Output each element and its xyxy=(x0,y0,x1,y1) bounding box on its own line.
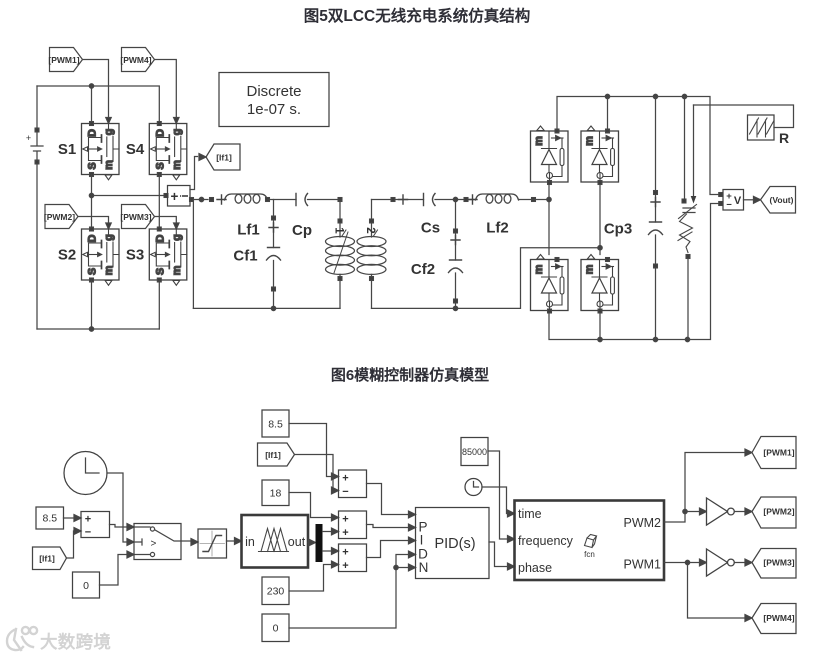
svg-text:+: + xyxy=(342,560,348,572)
capacitor Cs xyxy=(424,194,436,206)
wire PWM2 out xyxy=(664,453,745,523)
wire PWM3 to S3 gate xyxy=(155,217,177,223)
From tag If1 a xyxy=(33,547,67,570)
node PWM2 junction xyxy=(683,509,687,513)
svg-text:out: out xyxy=(288,535,306,549)
terminal Lf1 left xyxy=(210,198,214,202)
wire PWM2 to not1 xyxy=(685,511,700,513)
svg-text:[If1]: [If1] xyxy=(216,153,232,163)
sum block A xyxy=(339,470,367,498)
node top rail junction xyxy=(89,84,93,88)
svg-text:S2: S2 xyxy=(58,247,76,264)
wire DC minus rail xyxy=(549,204,719,340)
small clock block xyxy=(465,479,482,496)
wire sumA to PID in1 xyxy=(367,484,409,515)
voltage sensor V xyxy=(719,190,744,211)
From tag PWM3 xyxy=(120,205,154,229)
svg-text:+: + xyxy=(342,547,348,559)
logic not gate 1 xyxy=(707,498,735,525)
svg-text:Discrete: Discrete xyxy=(246,83,301,100)
arrow into PWM4 tag xyxy=(745,615,752,622)
svg-text:Cf1: Cf1 xyxy=(233,248,257,265)
node DC plus junction 1 xyxy=(605,94,609,98)
node DC minus junction 3 xyxy=(685,337,689,341)
wire 0a to switch xyxy=(100,555,128,586)
svg-text:8.5: 8.5 xyxy=(268,419,283,431)
svg-text:frequency: frequency xyxy=(518,534,574,548)
constant 0 a xyxy=(73,572,100,598)
current sensor I1 xyxy=(164,186,193,207)
svg-text:Cs: Cs xyxy=(421,220,440,237)
wire S2 source to bottom rail xyxy=(91,280,93,329)
MATLAB function block xyxy=(515,501,665,581)
svg-text:Lf2: Lf2 xyxy=(486,220,509,237)
wire 8.5a to sum1 xyxy=(64,517,75,519)
DC source battery xyxy=(26,86,43,329)
mosfet S4 xyxy=(149,118,187,180)
svg-text:图5双LCC无线充电系统仿真结构: 图5双LCC无线充电系统仿真结构 xyxy=(304,6,530,25)
Goto tag If1 xyxy=(199,144,240,170)
node bottom rail junction xyxy=(89,327,93,331)
node 0b junction xyxy=(394,565,398,569)
plus Lf1 xyxy=(217,195,226,204)
wire If1b to sum2bottom xyxy=(295,455,334,491)
svg-text:大数跨境: 大数跨境 xyxy=(40,632,111,652)
wire bridge left leg xyxy=(548,185,550,255)
switch block xyxy=(134,524,181,560)
svg-text:fcn: fcn xyxy=(584,550,595,559)
clock block xyxy=(64,452,107,495)
svg-text:S4: S4 xyxy=(126,141,145,158)
svg-text:图6模糊控制器仿真模型: 图6模糊控制器仿真模型 xyxy=(331,366,489,384)
wire top rail xyxy=(37,86,159,123)
svg-text:[If1]: [If1] xyxy=(39,554,55,564)
mosfet S2 xyxy=(82,223,120,285)
svg-text:in: in xyxy=(245,535,255,549)
wire small clock to fcn time xyxy=(482,487,508,514)
shunt branch Cf2 xyxy=(449,200,463,309)
wire secondary bottom rail xyxy=(372,248,601,309)
svg-text:(Vout): (Vout) xyxy=(770,195,794,205)
svg-text:V: V xyxy=(734,195,742,207)
svg-text:18: 18 xyxy=(270,488,282,500)
svg-text:0: 0 xyxy=(273,623,279,635)
From tag PWM4 xyxy=(120,48,154,72)
plus Cs xyxy=(399,195,408,204)
wire Cp to winding1 xyxy=(308,199,341,201)
constant 0 b xyxy=(262,614,289,642)
inductor Lf1 xyxy=(225,194,268,203)
svg-text:[If1]: [If1] xyxy=(265,450,281,460)
svg-text:time: time xyxy=(518,507,542,521)
svg-text:I: I xyxy=(420,533,424,548)
wire Cs to Lf2 xyxy=(435,199,474,201)
sum block 1 xyxy=(81,512,110,539)
node Cf2 bottom junction xyxy=(453,306,457,310)
wire 230 to sum4bottom xyxy=(289,565,332,592)
svg-text:+: + xyxy=(342,473,348,485)
svg-text:8.5: 8.5 xyxy=(42,513,57,525)
wire S4 source to S3 drain xyxy=(158,175,160,230)
svg-text:>: > xyxy=(151,539,157,550)
svg-text:+: + xyxy=(342,514,348,526)
svg-text:Lf1: Lf1 xyxy=(237,222,260,239)
From tag PWM2 xyxy=(44,205,78,229)
terminal Lf2 right xyxy=(532,198,536,202)
svg-text:−: − xyxy=(85,527,91,539)
sum block B xyxy=(339,511,367,539)
svg-text:+: + xyxy=(171,189,179,204)
svg-text:+: + xyxy=(85,514,91,526)
wire If1a to sum1 xyxy=(67,531,75,558)
svg-text:[PWM2]: [PWM2] xyxy=(44,212,75,222)
svg-text:1e-07 s.: 1e-07 s. xyxy=(247,101,301,118)
wire sensor output xyxy=(193,199,208,201)
svg-text:[PWM3]: [PWM3] xyxy=(763,558,794,568)
node mid rail junction xyxy=(89,193,93,197)
wire demux to sum3 xyxy=(323,550,332,552)
node Cf2 top junction xyxy=(453,197,457,201)
From tag PWM1 xyxy=(48,48,82,72)
constant 8.5 a xyxy=(36,507,64,529)
wire 8.5b to sum2top xyxy=(289,424,332,477)
constant 18 xyxy=(262,480,289,506)
svg-text:+: + xyxy=(342,527,348,539)
svg-text:PWM2: PWM2 xyxy=(624,516,662,530)
Discrete powergui block xyxy=(219,73,329,127)
svg-text:−: − xyxy=(342,486,348,498)
wire PWM1 out xyxy=(664,563,745,619)
terminal winding2 out xyxy=(391,198,395,202)
From tag If1 b xyxy=(258,443,295,466)
saturation block xyxy=(198,529,227,558)
wire PID to fcn phase xyxy=(489,542,508,567)
wire not1 to PWM2 tag xyxy=(735,511,746,513)
mosfet S1 xyxy=(82,118,120,180)
node bridge left AC junction xyxy=(547,197,551,201)
svg-text:N: N xyxy=(419,560,429,575)
constant 85000 xyxy=(461,438,488,466)
wire S1 source to mid rail xyxy=(91,175,93,230)
arrow into PWM1 tag xyxy=(745,449,752,456)
wire S3 source to bottom rail xyxy=(158,280,160,329)
diode module D4 xyxy=(581,255,619,313)
wire demux to sum2 xyxy=(323,531,332,533)
diode module D1 xyxy=(531,126,569,184)
wire secondary top xyxy=(372,199,424,201)
wire S1 drain drop xyxy=(91,86,93,123)
svg-text:−: − xyxy=(726,200,732,211)
wire bridge right leg xyxy=(599,185,601,255)
wire saturation to fuzzy xyxy=(227,540,235,542)
node Cf1 bottom junction xyxy=(271,306,275,310)
wire PWM1 to S1 gate xyxy=(83,60,109,118)
wire 85000 to fcn frequency xyxy=(488,451,508,539)
capacitor branch Cp3 xyxy=(649,97,663,340)
node DC minus junction 2 xyxy=(653,337,657,341)
PID block xyxy=(416,508,490,579)
wire Lf1 to Cp xyxy=(268,199,297,201)
diode module D3 xyxy=(531,255,569,313)
wire primary bottom rail xyxy=(193,307,340,309)
node PWM1 junction xyxy=(685,560,689,564)
svg-text:R: R xyxy=(779,130,789,146)
wire sumB to PID P xyxy=(367,525,409,528)
watermark logo xyxy=(7,627,37,650)
Goto tag PWM3 xyxy=(752,549,796,579)
terminal Lf2 left xyxy=(464,198,468,202)
wire switch to saturation xyxy=(181,540,191,542)
svg-text:[PWM3]: [PWM3] xyxy=(120,212,151,222)
surge arrester branch xyxy=(678,97,697,340)
shunt branch Cf1 xyxy=(267,200,281,309)
svg-text:Cp3: Cp3 xyxy=(604,221,632,238)
wire sumC to PID I xyxy=(367,541,409,558)
svg-text:230: 230 xyxy=(267,586,285,598)
svg-text:[PWM4]: [PWM4] xyxy=(763,613,794,623)
wire primary return drop xyxy=(192,200,194,309)
svg-text:1: 1 xyxy=(333,227,345,234)
svg-text:S3: S3 xyxy=(126,247,144,264)
constant 8.5 b xyxy=(262,410,289,437)
terminal Lf1 right xyxy=(266,198,270,202)
svg-text:PWM1: PWM1 xyxy=(624,558,662,572)
constant 230 xyxy=(262,577,289,605)
wire V to Vout xyxy=(744,199,754,201)
wire DC plus rail xyxy=(557,97,719,195)
node DC plus junction 3 xyxy=(682,94,686,98)
diode module D2 xyxy=(581,126,619,184)
transformer winding 2 xyxy=(357,200,386,309)
svg-text:PID(s): PID(s) xyxy=(434,536,475,552)
wire clock to switch xyxy=(107,473,127,542)
Goto tag Vout xyxy=(754,187,796,214)
wire PWM4 to S4 gate xyxy=(155,60,177,118)
node sensor output junction xyxy=(199,197,203,201)
wire current sensor signal to If1 xyxy=(190,157,198,190)
logic not gate 2 xyxy=(707,549,735,576)
Goto tag PWM4 xyxy=(752,604,796,634)
wire mid rail to current sensor xyxy=(92,195,166,197)
load block R xyxy=(694,105,794,146)
svg-text:0: 0 xyxy=(83,580,89,592)
svg-text:S1: S1 xyxy=(58,141,76,158)
Goto tag PWM1 xyxy=(752,437,796,469)
sum block C xyxy=(339,544,367,572)
mosfet S3 xyxy=(149,223,187,285)
Goto tag PWM2 xyxy=(752,497,796,528)
plus Lf2 xyxy=(468,195,477,204)
wire sum1 to switch xyxy=(110,525,128,528)
wire not2 to PWM3 tag xyxy=(735,562,746,564)
inductor Lf2 xyxy=(476,194,519,203)
svg-text:Cp: Cp xyxy=(292,222,312,239)
svg-text:+: + xyxy=(26,133,31,143)
demux bar xyxy=(316,524,323,562)
wire PWM1 to not2 xyxy=(688,562,700,564)
fuzzy logic controller block xyxy=(242,515,309,568)
svg-text:[PWM1]: [PWM1] xyxy=(763,448,794,458)
node bridge right AC junction xyxy=(598,246,602,250)
svg-text:[PWM2]: [PWM2] xyxy=(763,507,794,517)
svg-text:85000: 85000 xyxy=(462,447,487,457)
svg-text:[PWM4]: [PWM4] xyxy=(120,55,151,65)
svg-text:2: 2 xyxy=(364,227,376,233)
wire 0b to PID N and D xyxy=(289,555,409,629)
svg-text:phase: phase xyxy=(518,561,552,575)
wire PWM2 to S2 gate xyxy=(78,217,109,223)
transformer winding 1 xyxy=(326,198,355,309)
svg-text:Cf2: Cf2 xyxy=(411,261,435,278)
wire Lf2 to bridge xyxy=(519,199,550,201)
wire 18 to sum3top xyxy=(289,493,332,518)
svg-text:[PWM1]: [PWM1] xyxy=(48,55,79,65)
wire fuzzy to demux xyxy=(308,542,311,544)
node DC plus junction 2 xyxy=(653,94,657,98)
wire bottom rail xyxy=(37,328,159,330)
capacitor Cp xyxy=(296,194,308,206)
node DC minus junction 1 xyxy=(598,337,602,341)
